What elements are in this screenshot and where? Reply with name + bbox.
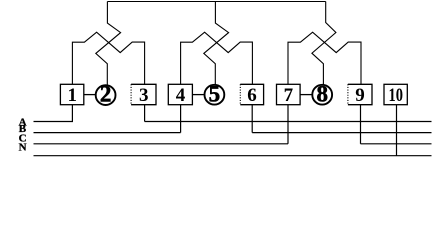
svg-text:10: 10: [388, 85, 403, 106]
link terminal 1 to 2: [84, 94, 96, 96]
svg-text:4: 4: [176, 85, 186, 106]
terminal 9 (dotted left edge): [348, 84, 372, 106]
wire terminal 1 down to phase A input: [34, 105, 73, 122]
current coil element 1 (terminal 1 to terminal 3): [72, 32, 144, 84]
wire terminal 6 down to phase B output line: [251, 105, 253, 133]
phase C output line: [361, 143, 432, 145]
terminal 1: [60, 84, 83, 106]
svg-text:2: 2: [100, 82, 112, 107]
terminal 10: [384, 84, 407, 106]
svg-text:8: 8: [316, 82, 328, 107]
svg-text:6: 6: [247, 85, 257, 106]
svg-text:5: 5: [209, 82, 221, 107]
terminal 7: [277, 84, 301, 106]
svg-text:7: 7: [284, 85, 294, 106]
wire terminal 10 down to neutral line: [396, 105, 398, 156]
svg-text:N: N: [19, 141, 27, 153]
wire terminal 7 down to phase C input: [287, 105, 289, 144]
wire terminal 4 down to phase B input: [180, 105, 182, 133]
svg-text:1: 1: [68, 85, 78, 106]
terminal 5 (voltage, circled): [205, 82, 225, 107]
voltage coil element 3: [312, 2, 336, 85]
wire terminal 3 down to phase A output line: [144, 105, 146, 122]
phase B output line: [252, 132, 431, 134]
voltage coil element 2: [204, 2, 229, 85]
terminal 4: [168, 84, 192, 106]
phase B input line: [34, 132, 181, 134]
link terminal 4 to 5: [192, 94, 204, 96]
terminal 2 (voltage, circled): [96, 82, 116, 107]
voltage coil element 1 (zigzag from top bus to terminal 2): [96, 2, 121, 85]
current coil element 3: [288, 32, 361, 84]
terminal 8 (voltage, circled): [312, 82, 332, 107]
terminal 6 (dotted left edge): [240, 84, 263, 106]
link terminal 7 to 8: [300, 94, 312, 96]
top common voltage bus: [107, 1, 325, 3]
wire terminal 9 down to phase C output line: [360, 105, 362, 144]
current coil element 2: [181, 32, 253, 84]
neutral line N: [34, 155, 432, 157]
svg-text:9: 9: [355, 85, 365, 106]
terminal 3 (dotted left edge): [131, 84, 156, 106]
phase A output line: [145, 121, 432, 123]
svg-text:3: 3: [139, 85, 149, 106]
phase C input line: [34, 143, 289, 145]
